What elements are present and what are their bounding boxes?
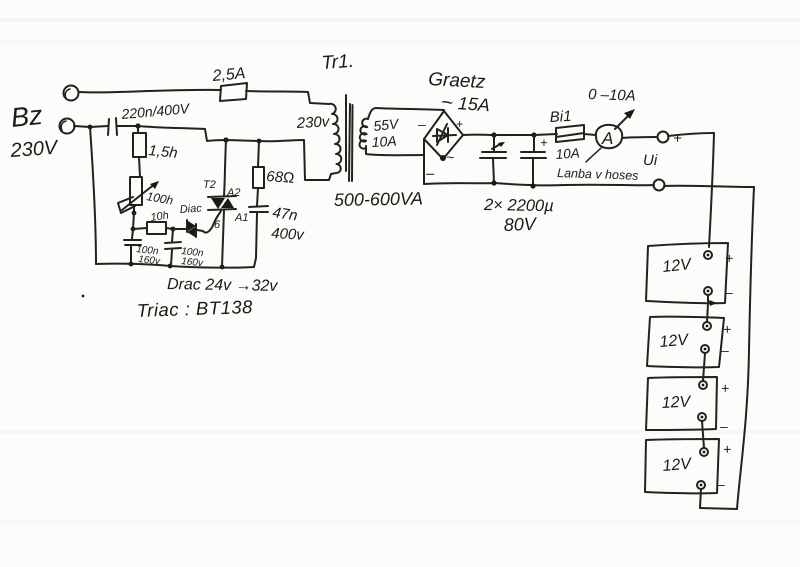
junction bottom cap1 (129, 262, 134, 267)
BT1 minus terminal (704, 287, 712, 295)
gate wire (203, 211, 221, 233)
svg-text:+: + (723, 321, 731, 337)
battery BT2 (647, 317, 724, 368)
svg-text:Bi1: Bi1 (549, 108, 572, 126)
battery feed vertical (709, 133, 714, 247)
junction cap1 top (491, 132, 496, 137)
battery BT3 (646, 377, 717, 430)
junction triac top (223, 137, 228, 142)
svg-text:0 –10A: 0 –10A (588, 86, 636, 105)
transformer core (346, 95, 353, 181)
svg-text:47n: 47n (271, 204, 298, 224)
minus output terminal (654, 180, 665, 191)
junction cap1 bottom (491, 180, 496, 185)
svg-text:Ui: Ui (643, 152, 658, 169)
svg-text:~: ~ (441, 94, 450, 111)
BT2 plus terminal (703, 322, 711, 330)
svg-text:2× 2200µ: 2× 2200µ (483, 196, 554, 215)
wire wiper down (133, 213, 134, 229)
plus rail cap1 to cap2 (494, 134, 534, 136)
ammeter arrow (615, 113, 631, 129)
capacitor C6 2200u (521, 135, 546, 186)
svg-text:12V: 12V (659, 331, 690, 351)
bridge bottom junction (440, 155, 446, 161)
fuse Bi1 (556, 125, 584, 142)
junction node B (131, 227, 136, 232)
svg-text:68Ω: 68Ω (266, 168, 295, 187)
transformer secondary coil (359, 119, 368, 149)
svg-text:Bz: Bz (9, 100, 44, 133)
junction N (88, 125, 93, 130)
diac D1 (173, 220, 203, 237)
minus rail right segment (664, 186, 754, 187)
link BT1-BT2 (707, 295, 708, 322)
svg-text:1,5h: 1,5h (148, 142, 179, 162)
battery BT4 (645, 439, 719, 493)
bridge inner diode (433, 124, 456, 145)
svg-text:–: – (417, 116, 426, 132)
svg-text:+: + (456, 117, 463, 131)
svg-text:80V: 80V (503, 214, 538, 235)
BT3 plus terminal (699, 381, 707, 389)
svg-text:10h: 10h (150, 210, 170, 224)
svg-text:+: + (673, 130, 682, 147)
resistor R3 68ohm (253, 141, 264, 206)
resistor R1 1,5k (133, 126, 146, 177)
bottom rail (96, 258, 256, 268)
stray dot (82, 295, 85, 298)
callout line meter (586, 148, 601, 162)
battery BT1 (646, 243, 728, 303)
BT1 plus terminal (704, 251, 712, 259)
wire fuse to ammeter (584, 134, 596, 135)
plus output terminal (658, 132, 669, 143)
potentiometer P1 100k body (130, 177, 142, 205)
svg-text:10A: 10A (555, 145, 580, 162)
bridge left corner to minus rail (423, 139, 425, 184)
svg-text:T2: T2 (203, 179, 216, 191)
battery return vertical (700, 187, 754, 509)
svg-text:–: – (720, 342, 729, 358)
svg-text:2,5A: 2,5A (211, 65, 246, 85)
svg-text:55V: 55V (373, 115, 401, 134)
plus rail bridge to cap1 (463, 134, 494, 136)
svg-text:400v: 400v (271, 225, 306, 244)
svg-text:12V: 12V (661, 393, 692, 412)
wire top L to fuse (79, 90, 221, 93)
fuse F1 2,5A (220, 83, 247, 101)
svg-text:–: – (425, 165, 435, 182)
BT2 minus terminal (701, 345, 709, 353)
svg-text:~: ~ (446, 149, 454, 165)
svg-text:Graetz: Graetz (428, 69, 487, 93)
svg-text:10A: 10A (371, 133, 397, 150)
capacitor C1 100n/160V (124, 229, 141, 264)
wire node A to triac rail (138, 126, 331, 180)
terminal L (64, 86, 79, 101)
triac Q1 symbol (208, 196, 236, 210)
left vertical wire (90, 127, 96, 264)
ammeter A1 (596, 125, 622, 148)
svg-text:12V: 12V (662, 256, 693, 276)
minus rail (424, 183, 654, 185)
svg-text:A1: A1 (234, 212, 248, 224)
bridge B1 diamond (424, 111, 463, 159)
capacitor C2 100n/160V (165, 229, 181, 265)
junction cap2 bottom (530, 183, 535, 188)
BT4 minus terminal (697, 481, 705, 489)
node A junction (135, 123, 140, 128)
C5 polarity arrow (492, 143, 502, 149)
svg-text:Triac : BT138: Triac : BT138 (136, 296, 253, 321)
svg-text:500-600VA: 500-600VA (334, 188, 423, 210)
svg-text:–: – (716, 476, 725, 492)
junction wiper (132, 211, 137, 216)
svg-text:+: + (540, 135, 548, 150)
capacitor C4 220n/400V (108, 118, 117, 135)
junction node C (171, 227, 176, 232)
secondary bottom lead (366, 146, 424, 155)
svg-text:A: A (601, 129, 613, 148)
plus rail cap2 to fuse (534, 134, 557, 135)
transformer primary coil (329, 104, 341, 174)
link BT2-BT3 (703, 353, 705, 381)
BT4 plus terminal (700, 448, 708, 456)
svg-text:+: + (725, 250, 733, 266)
terminal N (60, 119, 75, 134)
svg-text:–: – (724, 284, 733, 300)
svg-text:+: + (723, 441, 731, 457)
link BT3-BT4 (702, 421, 704, 448)
potentiometer arrow (122, 183, 156, 210)
svg-text:–: – (719, 418, 728, 434)
svg-text:6: 6 (214, 219, 221, 231)
secondary top lead (368, 108, 444, 119)
svg-text:Lanba v hoses: Lanba v hoses (557, 166, 639, 183)
svg-text:+: + (721, 380, 729, 396)
wire cap to node (117, 125, 138, 127)
junction cap2 top (531, 132, 536, 137)
svg-text:Diac: Diac (179, 202, 202, 216)
capacitor C3 47n/400V (249, 206, 268, 258)
potentiometer wiper tap (118, 197, 135, 213)
wire plus terminal to battery drop (668, 133, 714, 136)
svg-text:230v: 230v (295, 113, 331, 132)
svg-text:230V: 230V (9, 137, 60, 162)
junction bottom triac (220, 265, 225, 270)
BT4 lead to bottom (700, 489, 701, 508)
svg-text:A2: A2 (226, 187, 240, 199)
wire N to cap (74, 126, 108, 127)
junction bottom cap2 (168, 264, 173, 269)
battery terminal marks (707, 254, 710, 257)
svg-text:Tr1.: Tr1. (321, 51, 355, 74)
BT3 minus terminal (698, 413, 706, 421)
svg-text:Drac 24v →32v: Drac 24v →32v (167, 276, 279, 295)
junction 68ohm top (257, 139, 262, 144)
svg-text:12V: 12V (662, 455, 693, 475)
wire ammeter to plus terminal (622, 137, 657, 138)
triac Q1 lead top (224, 140, 226, 196)
triac lead bottom (222, 210, 224, 267)
wire fuse to transformer primary top (246, 91, 329, 104)
resistor R2 10k (133, 222, 173, 234)
capacitor C5 2200u (480, 135, 506, 183)
